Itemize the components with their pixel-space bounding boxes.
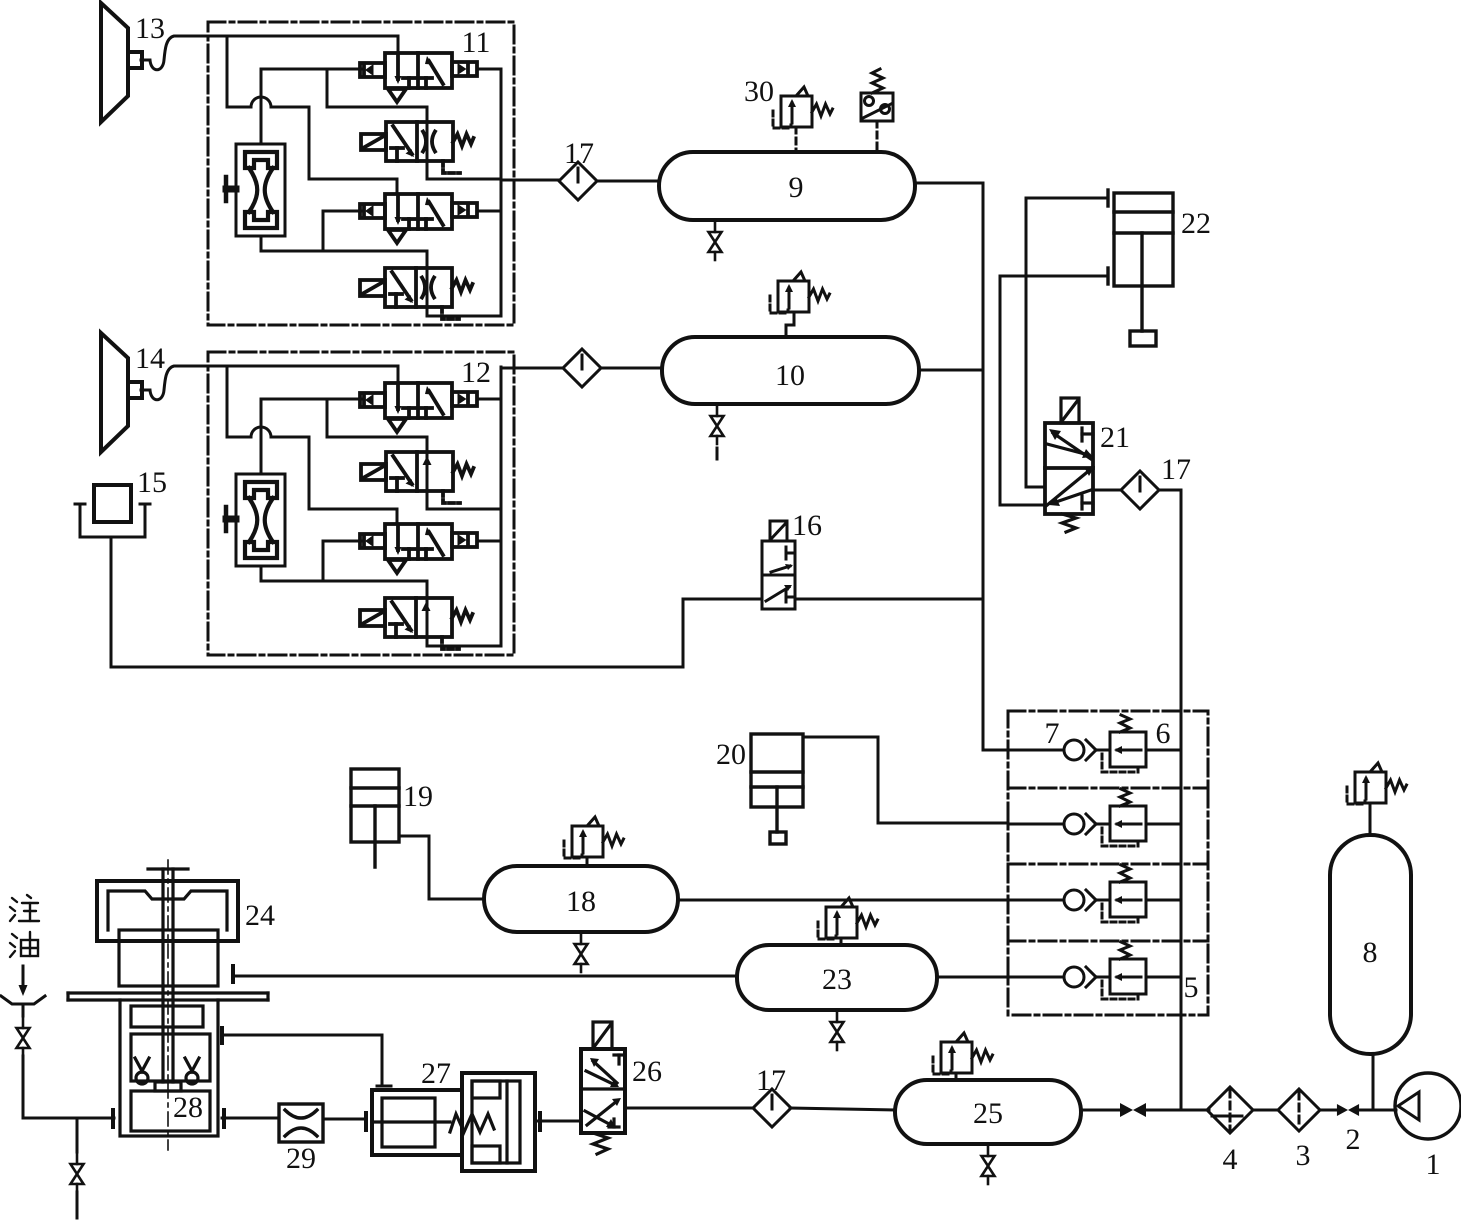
drain valve tank 25 xyxy=(982,1144,995,1184)
wire valve16 outlet xyxy=(795,598,983,601)
pilot valve v1 xyxy=(360,53,477,102)
wire pump to restrictor xyxy=(222,1117,279,1120)
wire filter to tank 25 xyxy=(790,1108,895,1110)
pilot valve v3 xyxy=(360,194,477,243)
pilot valve v3 xyxy=(360,524,477,573)
svg-text:25: 25 xyxy=(973,1097,1003,1130)
stem relief tank10 xyxy=(786,312,794,337)
solenoid valve v2 xyxy=(361,452,474,503)
svg-text:24: 24 xyxy=(245,899,275,932)
drain valve tank 9 xyxy=(709,220,722,260)
wire pump to tank 23 xyxy=(234,975,737,978)
pressure switch on tank 9 xyxy=(861,69,893,152)
pilot valve v1 xyxy=(360,383,477,432)
pressure regulator element in block 12 xyxy=(226,474,285,566)
svg-text:17: 17 xyxy=(756,1064,786,1097)
wire valve26 to filter xyxy=(625,1107,754,1110)
svg-text:10: 10 xyxy=(775,359,805,392)
wire horn 14 to valve block xyxy=(141,366,398,400)
manifold section divider xyxy=(1008,863,1208,866)
svg-text:3: 3 xyxy=(1296,1139,1311,1172)
wire through valve2 xyxy=(426,122,429,161)
shutoff valve xyxy=(1120,1103,1146,1117)
air tank 23 xyxy=(737,945,937,1010)
wire tank23 to manifold row4 xyxy=(937,976,1008,979)
horn 14 xyxy=(101,333,142,452)
svg-text:23: 23 xyxy=(822,963,852,996)
svg-text:21: 21 xyxy=(1100,421,1130,454)
svg-text:17: 17 xyxy=(1161,453,1191,486)
wire pump to valve 27 pilot xyxy=(222,1035,382,1086)
air tank 10 xyxy=(662,337,919,404)
wire pilot valve1 xyxy=(261,68,361,71)
drain stub tank10 xyxy=(716,448,719,459)
svg-text:30: 30 xyxy=(744,75,774,108)
solenoid valve 26 xyxy=(581,1022,625,1154)
cylinder 20 xyxy=(751,734,803,844)
filler shutoff valve xyxy=(17,1016,30,1056)
svg-text:15: 15 xyxy=(137,466,167,499)
air tank 9 xyxy=(659,152,915,220)
wire block 12 outlet xyxy=(501,367,563,370)
wire output bus xyxy=(500,69,503,316)
svg-text:13: 13 xyxy=(135,12,165,45)
stem relief 18 xyxy=(586,857,589,866)
filter 17 (at valve 21) xyxy=(1121,471,1159,509)
wire tank 8 to main line xyxy=(1372,1054,1375,1110)
solenoid valve 21 xyxy=(1045,398,1095,532)
relief valve on tank 10 xyxy=(770,272,830,313)
check valve + regulator row4 xyxy=(1008,942,1181,999)
wire cyl19 to tank 18 xyxy=(399,836,484,899)
wire tank 10 outlet xyxy=(919,369,983,372)
svg-text:4: 4 xyxy=(1223,1143,1238,1176)
horn 13 xyxy=(101,3,142,122)
wire filter to tank 10 xyxy=(601,367,662,370)
filler arrow xyxy=(19,966,28,996)
svg-text:6: 6 xyxy=(1156,717,1171,750)
wire tank18 to manifold row3 xyxy=(678,899,1008,902)
wire to pressure element top xyxy=(260,69,263,144)
svg-text:14: 14 xyxy=(135,342,165,375)
drain stub xyxy=(76,1192,79,1218)
wire filter to tank 9 xyxy=(597,180,659,183)
wire 15 to valve 16 xyxy=(111,537,762,667)
svg-text:18: 18 xyxy=(566,885,596,918)
wire filter to manifold bus xyxy=(1159,490,1181,1110)
solenoid valve v2 xyxy=(361,122,474,173)
funnel xyxy=(1,996,45,1004)
relief valve on tank 23 xyxy=(818,898,878,939)
wire cyl22 top port to valve 21 xyxy=(1026,198,1108,487)
stem relief 8 xyxy=(1369,803,1372,835)
svg-text:9: 9 xyxy=(789,171,804,204)
relief valve 30 xyxy=(773,87,833,128)
wire block 11 outlet xyxy=(501,179,559,182)
svg-text:28: 28 xyxy=(173,1091,203,1124)
wire vertical bus to manifold xyxy=(982,183,985,750)
air tank 25 xyxy=(895,1080,1081,1144)
svg-text:16: 16 xyxy=(792,509,822,542)
relief valve on tank 18 xyxy=(564,817,624,858)
lubricator pump 24 xyxy=(68,869,268,1136)
check valve + regulator row3 xyxy=(1008,865,1181,922)
wire supply branch xyxy=(226,36,229,107)
pressure regulator element in block 11 xyxy=(226,144,285,236)
svg-text:19: 19 xyxy=(403,780,433,813)
air tank 18 xyxy=(484,866,678,932)
wire filler to main xyxy=(22,1056,25,1118)
wire valve4 bottom xyxy=(426,632,429,646)
svg-text:17: 17 xyxy=(564,137,594,170)
svg-text:7: 7 xyxy=(1045,717,1060,750)
wire output bus xyxy=(500,367,503,646)
svg-text:1: 1 xyxy=(1426,1148,1441,1181)
wire through valve4 xyxy=(426,268,429,302)
wire valve27 to valve26 xyxy=(538,1120,581,1123)
cylinder 19 xyxy=(351,769,399,867)
compressor 1 xyxy=(1395,1073,1461,1139)
wire element bottom to valve3 pilot and valve4 xyxy=(261,566,427,598)
wire supply branch xyxy=(226,366,229,437)
wire valve21 to filter xyxy=(1093,489,1121,492)
restrictor 29 xyxy=(279,1104,323,1142)
wire pilot junction to valve2 xyxy=(327,399,501,509)
device 15 xyxy=(75,485,150,537)
wire cyl20 to manifold row2 xyxy=(803,737,1008,823)
svg-text:11: 11 xyxy=(462,26,491,59)
svg-text:8: 8 xyxy=(1363,936,1378,969)
filter 17 (to tank 9) xyxy=(559,162,597,200)
solenoid valve 16 xyxy=(762,521,795,609)
wire tank 9 outlet xyxy=(915,182,983,185)
wire with crossover hop xyxy=(227,97,397,194)
dashed enclosure 11 xyxy=(208,22,514,325)
wire restrictor to valve27 xyxy=(323,1118,366,1121)
drain valve tank 18 xyxy=(575,932,588,972)
pilot stem valve 30 xyxy=(795,127,798,152)
wire pilot junction to valve2 xyxy=(327,69,501,179)
wire to pressure element top xyxy=(260,399,263,474)
relief valve on tank 25 xyxy=(933,1033,993,1074)
solenoid valve v4 xyxy=(360,598,473,649)
wire through valve2 xyxy=(426,452,429,491)
filter 4 xyxy=(1207,1087,1253,1133)
solenoid valve v4 xyxy=(360,268,473,319)
check valve + regulator row2 xyxy=(1008,789,1181,846)
wire filter3 to valve2 xyxy=(1320,1109,1338,1112)
svg-text:29: 29 xyxy=(286,1142,316,1175)
wire filter4 to filter3 xyxy=(1253,1109,1278,1112)
wire to valve1 top xyxy=(397,366,400,383)
filter 3 xyxy=(1278,1089,1320,1131)
relief valve on tank 8 xyxy=(1347,763,1407,804)
svg-text:26: 26 xyxy=(632,1055,662,1088)
wire funnel xyxy=(22,1004,25,1016)
text zhu-you (oil filling), hand-drawn strokes xyxy=(10,895,39,957)
check valve 7 + regulator 6 row1 xyxy=(1008,715,1181,772)
svg-text:27: 27 xyxy=(421,1057,451,1090)
wire with crossover hop xyxy=(227,427,397,524)
drain valve tank 10 xyxy=(711,404,724,444)
wire tank25 right xyxy=(1081,1109,1120,1112)
wire horn 13 to valve block xyxy=(141,36,398,70)
stem relief 25 xyxy=(955,1073,958,1080)
svg-text:5: 5 xyxy=(1184,971,1199,1004)
wire pilot valve1 xyxy=(261,398,361,401)
drain branch xyxy=(76,1118,79,1152)
dashed enclosure 12 xyxy=(208,352,514,655)
svg-text:2: 2 xyxy=(1346,1123,1361,1156)
stem relief 23 xyxy=(840,938,843,945)
drain valve main xyxy=(71,1152,84,1192)
manifold enclosure 5 xyxy=(1008,711,1208,1015)
wire bus to manifold row1 xyxy=(983,749,1008,752)
drain valve tank 23 xyxy=(831,1010,844,1050)
wire to filter 4 xyxy=(1146,1109,1209,1112)
wire through valve4 xyxy=(426,598,429,632)
valve27 pilot port bar xyxy=(377,1085,391,1088)
wire element bottom to valve3 pilot and valve4 xyxy=(261,236,427,268)
wire valve2 to compressor xyxy=(1359,1109,1396,1112)
svg-text:20: 20 xyxy=(716,738,746,771)
governor valve 27 xyxy=(366,1073,540,1171)
pump centerline xyxy=(167,860,169,1150)
svg-text:12: 12 xyxy=(461,356,491,389)
manifold section divider xyxy=(1008,787,1208,790)
filter 17 (bottom) xyxy=(753,1089,791,1127)
wire cyl22 bottom port to valve 21 xyxy=(1000,276,1108,505)
wire valve4 bottom xyxy=(426,302,429,316)
cylinder 22 xyxy=(1108,190,1173,346)
filter 17 (to tank 10) xyxy=(563,349,601,387)
wire to valve1 top xyxy=(397,36,400,53)
manifold section divider xyxy=(1008,940,1208,943)
air reservoir 8 xyxy=(1330,835,1411,1054)
shutoff valve 2 xyxy=(1337,1104,1359,1116)
wire main line left xyxy=(23,1117,114,1120)
svg-text:22: 22 xyxy=(1181,207,1211,240)
